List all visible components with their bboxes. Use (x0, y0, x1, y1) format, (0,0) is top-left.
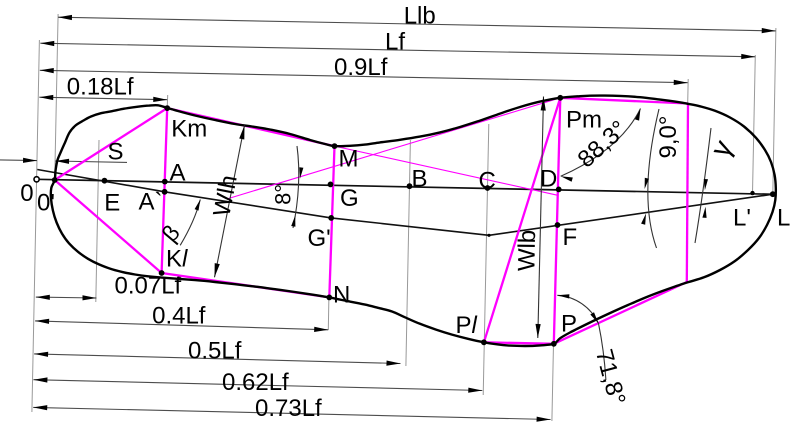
svg-text:Llb: Llb (404, 2, 436, 29)
svg-text:Kl: Kl (166, 246, 188, 273)
node L (770, 191, 776, 197)
extension line below N (327, 297, 330, 330)
svg-text:8°: 8° (271, 184, 296, 205)
magenta diagonal Pm-P/l (484, 98, 560, 342)
svg-text:E: E (104, 189, 120, 216)
extension line through C and P/l (483, 124, 489, 395)
svg-text:S: S (108, 139, 124, 166)
svg-text:A`: A` (139, 189, 163, 216)
svg-text:G': G' (308, 225, 331, 252)
magenta toe top Pm-T1 (560, 98, 688, 104)
node B (407, 183, 413, 189)
node 0 (open circle) (34, 177, 39, 182)
magenta line 0'-Km (55, 108, 168, 180)
node F (555, 222, 561, 228)
node G' (328, 215, 334, 221)
svg-text:0.5Lf: 0.5Lf (188, 338, 242, 365)
short dimension heel 0-0' left tail (0, 159, 37, 162)
extension line through B (406, 140, 411, 366)
node A (162, 179, 168, 185)
magenta line Km-M (167, 108, 334, 146)
thin magenta M to D-vertical (335, 146, 558, 195)
dimension 0.5Lf (34, 354, 400, 364)
dimension 0.18Lf (39, 97, 167, 100)
svg-text:M: M (339, 146, 359, 173)
node 0' (52, 177, 58, 183)
extension line above toe 0.9Lf (687, 79, 690, 103)
magenta line K/l-N (162, 273, 330, 297)
svg-text:L: L (777, 205, 790, 232)
node at kink of ball line (487, 234, 490, 237)
dimension 0.9Lf (40, 70, 688, 82)
dimension 0.62Lf (33, 380, 482, 391)
angle 8 deg arc (293, 146, 299, 228)
svg-text:Pm: Pm (566, 107, 602, 134)
node C (485, 185, 491, 191)
svg-text:0: 0 (20, 180, 33, 207)
node M (332, 143, 338, 149)
angle beta arc (180, 200, 200, 246)
dimension Wlh (215, 125, 245, 277)
svg-text:0': 0' (37, 190, 55, 217)
short dimension heel 0-0' right tail (55, 161, 127, 162)
extension line below P (552, 344, 554, 422)
svg-text:D: D (540, 165, 557, 192)
dimension 0.07Lf (36, 296, 97, 299)
node K/l (159, 270, 165, 276)
node A` (162, 189, 168, 195)
svg-text:Wlb: Wlb (513, 230, 541, 272)
extension line through L (773, 28, 776, 194)
svg-text:B: B (412, 166, 428, 193)
svg-text:P: P (561, 311, 577, 338)
svg-text:Km: Km (171, 116, 207, 143)
extension line through point 0 (reference vertical) (32, 40, 40, 412)
extension line through point 0' (55, 14, 58, 180)
magenta toe diagonal T2-P (554, 282, 687, 344)
node E (102, 178, 108, 184)
node Km (164, 105, 170, 111)
dimension Lf (40, 43, 755, 57)
svg-text:G: G (340, 185, 359, 212)
extension line at 0.07Lf (near E) (96, 140, 99, 302)
thin magenta from 8-line to Pm (229, 98, 561, 199)
axis line 0-L (37, 179, 776, 194)
dimension 0.73Lf (33, 407, 550, 419)
node G (328, 182, 334, 188)
node D (556, 187, 562, 193)
node Pm (557, 95, 563, 101)
svg-text:0.4Lf: 0.4Lf (152, 303, 206, 330)
line G'-F-L' (ball line to L) (489, 194, 773, 235)
extension tick above Km (166, 95, 169, 108)
svg-text:N: N (333, 282, 350, 309)
angle 88.3 deg arc at Pm-D (561, 109, 641, 177)
8-degree line through A`, G' (37, 170, 489, 236)
node P (551, 341, 557, 347)
dimension 0.4Lf (35, 321, 328, 330)
svg-text:0.73Lf: 0.73Lf (255, 395, 322, 422)
magenta vertical Pm-D-F-P (554, 98, 561, 344)
svg-text:0.9Lf: 0.9Lf (334, 54, 388, 81)
dimension Llb (58, 17, 776, 31)
svg-text:0.18Lf: 0.18Lf (67, 74, 134, 101)
svg-text:Pl: Pl (456, 312, 478, 339)
node P/l (481, 339, 487, 345)
angle 9.0 deg arc near toe (648, 109, 659, 248)
svg-text:F: F (563, 224, 578, 251)
svg-text:9,0°: 9,0° (655, 116, 682, 159)
last bottom outline (51, 96, 776, 346)
angle 71.8 deg arc at P (557, 295, 598, 323)
svg-text:C: C (479, 168, 496, 195)
angle gamma arc near L (695, 128, 711, 243)
extension line through L' (753, 55, 756, 193)
svg-text:A: A (170, 160, 186, 187)
magenta bottom P/l-P (484, 342, 554, 344)
node L' (750, 191, 754, 195)
dimension Wlb (538, 97, 544, 339)
magenta vertical Km-K/l (162, 108, 168, 273)
magenta vertical M-N through G G' (329, 146, 334, 297)
svg-text:L': L' (733, 205, 751, 232)
magenta line 0'-K/l (55, 180, 162, 273)
svg-text:Lf: Lf (385, 29, 405, 56)
svg-text:0.62Lf: 0.62Lf (222, 369, 289, 396)
node N (326, 295, 332, 301)
magenta toe vertical T1-T2 (687, 104, 688, 283)
